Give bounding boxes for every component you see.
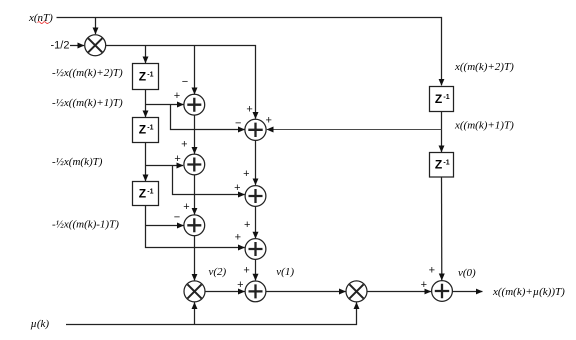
sign plus at B1 right input	[265, 114, 271, 126]
adder B5	[432, 281, 453, 302]
node output label x((m(k)+mu(k))T)	[492, 286, 565, 298]
svg-text:x(nT): x(nT)	[28, 12, 53, 24]
svg-text:+: +	[237, 279, 243, 291]
adder A1	[184, 94, 205, 115]
svg-text:-½x((m(k)+1)T): -½x((m(k)+1)T)	[52, 97, 123, 109]
svg-text:-1: -1	[443, 94, 449, 101]
svg-text:+: +	[234, 182, 240, 194]
svg-text:+: +	[265, 114, 271, 126]
sign plus at A2 top input	[181, 139, 187, 151]
wire A1 output into A2 top	[194, 115, 196, 154]
svg-text:-1: -1	[147, 188, 153, 195]
wire Z1 output down into Z2	[145, 90, 147, 118]
wire -1/2 arrow into X1	[70, 45, 84, 47]
wire Z3 branch right into A3 left	[146, 225, 184, 227]
sign plus at B3 top input	[244, 219, 250, 231]
delay Z3	[133, 182, 159, 206]
svg-text:Z: Z	[435, 92, 442, 106]
label -1/2	[51, 40, 70, 52]
svg-text:-½x((m(k)+2)T): -½x((m(k)+2)T)	[52, 67, 123, 79]
wire branch down into A1 top	[194, 46, 196, 95]
svg-text:x((m(k)+1)T): x((m(k)+1)T)	[454, 120, 514, 132]
label x((m(k)+2)T)	[454, 61, 514, 73]
svg-text:+: +	[235, 232, 241, 244]
delay Z2	[133, 118, 159, 143]
label x((m(k)+1)T)	[454, 120, 514, 132]
wire B2 output into B3 top	[255, 206, 257, 238]
adder A2	[184, 154, 205, 175]
wire mu(k) line across and up into X3 bottom	[66, 303, 357, 325]
wire X1 output across and down into B1 top	[106, 46, 256, 119]
svg-text:+: +	[174, 90, 180, 102]
svg-text:+: +	[243, 264, 249, 276]
sign plus at B5 top input	[429, 265, 435, 277]
label -1/2 x((m(k)-1)T)	[52, 219, 119, 231]
svg-text:-1/2: -1/2	[51, 40, 70, 52]
svg-text:Z: Z	[139, 69, 146, 83]
sign plus at B3 left input	[235, 232, 241, 244]
wire Z2 branch right into A2 left	[146, 165, 184, 167]
adder B3	[245, 239, 266, 260]
sign plus at A2 left input	[174, 153, 180, 165]
node x(nT) input label	[28, 12, 53, 24]
sign minus at B1 left input	[235, 117, 241, 129]
wire Z4 output down into Z5	[441, 112, 443, 153]
wire A3 output into X2 top	[194, 236, 196, 281]
svg-text:+: +	[246, 103, 252, 115]
wire B1 output into B2 top	[255, 140, 257, 185]
svg-text:v(0): v(0)	[458, 267, 476, 279]
adder B4	[245, 281, 266, 302]
adder A3	[184, 215, 205, 236]
wire mu branch up into X2 bottom	[194, 303, 196, 325]
svg-text:+: +	[181, 139, 187, 151]
svg-text:x((m(k)+2)T): x((m(k)+2)T)	[454, 61, 514, 73]
svg-text:Z: Z	[435, 158, 442, 172]
svg-text:-1: -1	[147, 71, 153, 78]
svg-text:+: +	[243, 168, 249, 180]
svg-text:v(2): v(2)	[209, 266, 227, 278]
svg-text:−: −	[235, 117, 241, 129]
sign minus at A3 left input	[174, 212, 180, 224]
multiplier X3	[346, 281, 367, 302]
svg-text:-½x((m(k)-1)T): -½x((m(k)-1)T)	[52, 219, 119, 231]
sign plus at B4 top input	[243, 264, 249, 276]
wire Z3 output down then right into B3 left	[146, 206, 245, 248]
wire Z4 branch left into B1 right	[267, 129, 442, 131]
wire drop from Z1 branch down and right into B1 left	[171, 105, 245, 130]
label mu(k)	[31, 318, 50, 330]
delay Z1	[133, 64, 159, 90]
delay Z4	[430, 87, 454, 112]
wire X3 output into B5 left	[367, 291, 431, 293]
sign plus at B1 top input	[246, 103, 252, 115]
wire drop from Z2 branch down and right into B2 left	[173, 166, 245, 195]
sign plus at B2 top input	[243, 168, 249, 180]
wire Z1 branch right into A1 left	[146, 104, 184, 106]
label v(1)	[276, 266, 294, 278]
delay Z5	[430, 153, 454, 178]
svg-text:+: +	[429, 265, 435, 277]
wire B5 output arrow	[452, 291, 482, 293]
sign plus at A3 top input	[183, 201, 189, 213]
wire B3 output into B4 top	[255, 259, 257, 280]
label -1/2 x((m(k)+2)T)	[52, 67, 123, 79]
sign minus at A1 top input	[182, 76, 188, 88]
wire A2 output into A3 top	[194, 175, 196, 215]
adder B1	[245, 119, 266, 140]
wire Z5 output down into B5 top	[441, 177, 443, 280]
sign plus at B5 left input	[421, 279, 427, 291]
svg-text:-1: -1	[147, 125, 153, 132]
red squiggle under nT	[38, 22, 49, 24]
svg-text:µ(k): µ(k)	[31, 318, 50, 330]
svg-text:+: +	[421, 279, 427, 291]
adder B2	[245, 186, 266, 207]
svg-text:v(1): v(1)	[276, 266, 294, 278]
wire B4 output into X3 left	[266, 291, 346, 293]
svg-text:−: −	[182, 76, 188, 88]
wire X2 output into B4 left	[205, 291, 245, 293]
wire Z2 output down into Z3	[145, 143, 147, 182]
svg-text:Z: Z	[139, 186, 146, 200]
sign plus at B4 left input	[237, 279, 243, 291]
label -1/2 x((m(k)+1)T)	[52, 97, 123, 109]
svg-text:+: +	[244, 219, 250, 231]
label v(0)	[458, 267, 476, 279]
svg-text:−: −	[174, 212, 180, 224]
svg-text:-1: -1	[443, 160, 449, 167]
svg-text:+: +	[183, 201, 189, 213]
svg-text:+: +	[174, 153, 180, 165]
svg-text:x((m(k)+µ(k))T): x((m(k)+µ(k))T)	[492, 286, 565, 298]
label v(2)	[209, 266, 227, 278]
sign plus at B2 left input	[234, 182, 240, 194]
wire branch down into Z1	[145, 46, 147, 64]
multiplier X2	[184, 281, 205, 302]
label -1/2 x(m(k)T)	[52, 156, 103, 168]
svg-text:-½x(m(k)T): -½x(m(k)T)	[52, 156, 103, 168]
wire top line from x(nT) across and down into Z4	[57, 18, 442, 86]
sign plus at A1 left input	[174, 90, 180, 102]
wire branch down into multiplier X1	[95, 18, 97, 35]
multiplier X1	[85, 35, 106, 56]
svg-text:Z: Z	[139, 123, 146, 137]
